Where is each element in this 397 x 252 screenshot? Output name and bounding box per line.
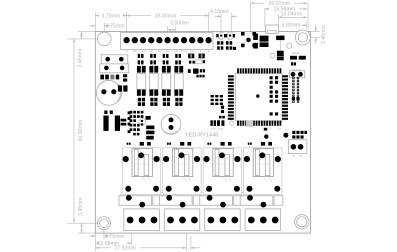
- svg-text:C6 C7: C6 C7: [266, 129, 271, 131]
- relay K1 side pins: [123, 156, 129, 162]
- svg-text:3.75mm: 3.75mm: [106, 24, 125, 30]
- MCU U1 pin1 via: [256, 94, 259, 97]
- svg-text:VIN: VIN: [125, 51, 129, 53]
- capacitor C5 pads: [121, 119, 127, 122]
- transistor Q2 pads: [150, 98, 157, 106]
- dimension 26.07mm: [251, 2, 265, 4]
- extra dim arrow bottom: [191, 247, 200, 249]
- LED ACT outline: [227, 32, 234, 39]
- pin header J1 labels: [125, 50, 210, 53]
- transistor Q1 pads: [138, 98, 145, 106]
- electrolytic capacitor E1: [96, 80, 121, 105]
- regulator U2 tabs: [103, 116, 108, 131]
- resistor R2 pads: [110, 75, 114, 80]
- dimension 3.75mm (left edge to first pin): [95, 15, 99, 17]
- relay K4 pin1: [259, 152, 265, 158]
- MCU U1 top pins: [237, 68, 281, 73]
- transistor Q5 round outline: [139, 119, 146, 126]
- PCB board outline: [95, 32, 310, 234]
- diode D7 pads: [146, 126, 154, 130]
- relay K4 side pins: [244, 156, 250, 162]
- crystal Y1 pads: [241, 32, 256, 47]
- svg-text:C10: C10: [278, 129, 281, 131]
- DC jack J2 pads: [276, 36, 284, 41]
- LED pads and resistors: [216, 34, 236, 50]
- optocoupler U4 pads top: [149, 66, 158, 73]
- optocoupler U3 body: [137, 74, 146, 90]
- passive cluster grid A: [130, 111, 144, 118]
- relay K4 marks: [257, 164, 270, 165]
- optocoupler U5 pads top: [162, 66, 171, 73]
- capacitor C2 footprint: [100, 64, 129, 73]
- svg-text:3.75mm: 3.75mm: [101, 13, 120, 19]
- svg-text:3.82mm: 3.82mm: [282, 22, 301, 28]
- relay K4 coil body: [253, 149, 273, 177]
- dimension extension lines top-left: [94, 13, 96, 32]
- fuse F1 pads: [260, 36, 269, 42]
- dimension 15.54mm: [265, 8, 270, 10]
- varistor box 1: [119, 196, 152, 205]
- svg-text:3.45mm: 3.45mm: [78, 197, 84, 216]
- passive cluster grid B: [130, 119, 140, 135]
- optocoupler U5 pads bottom: [162, 90, 171, 96]
- MCU U1 left pins: [228, 75, 234, 120]
- serial connector outline: [289, 71, 304, 78]
- diode D8 pads: [146, 131, 154, 135]
- MCU U1 bottom pins: [237, 121, 281, 126]
- relay K1 bottom pins: [125, 186, 131, 192]
- svg-text:YED-RY1448: YED-RY1448: [185, 133, 218, 139]
- relay K2 marks: [176, 164, 189, 165]
- relay K4 outline: [244, 148, 282, 195]
- transistor Q3 pads: [163, 98, 170, 106]
- relay K1 top pads: [127, 142, 151, 146]
- relay K2 top pads: [167, 142, 191, 146]
- driver column 3: resistors: [163, 54, 169, 65]
- capacitor C1 footprint: [101, 55, 128, 64]
- dimension 3.45mm top-left (vertical): [78, 31, 95, 33]
- capacitor bank cluster: [211, 95, 223, 105]
- small outline box: [196, 60, 203, 64]
- via pad: [264, 128, 267, 131]
- varistor box 4: [240, 196, 273, 205]
- DC jack J2 barrel circles: [295, 30, 310, 45]
- relay K2 side pins: [163, 156, 169, 162]
- svg-text:10002: 10002: [218, 128, 223, 130]
- relay K1 coil body: [132, 149, 152, 177]
- terminal block TB3: [205, 209, 241, 231]
- driver column 1: resistors: [138, 54, 144, 65]
- optocoupler U4 pads bottom: [149, 90, 158, 96]
- svg-text:13.04mm: 13.04mm: [281, 12, 303, 18]
- pin header J1 outline: [121, 33, 213, 50]
- svg-text:VOUT: VOUT: [181, 51, 188, 53]
- diode D9 pads: [146, 136, 154, 140]
- diode D5 pads: [253, 33, 258, 40]
- resistor R11 pads: [217, 120, 220, 126]
- svg-text:3.75mm: 3.75mm: [105, 234, 124, 240]
- mounting hole top-left: [98, 32, 112, 46]
- MCU U1 exposed pad: [246, 120, 254, 127]
- dimension 27.92mm bottom: [95, 247, 98, 249]
- LED PWR outline: [218, 32, 225, 39]
- MCU U1 body outline: [235, 73, 282, 121]
- svg-text:COM: COM: [173, 51, 178, 53]
- GND connector outline: [288, 140, 307, 154]
- optocoupler U5 body: [162, 74, 171, 90]
- relay K3 outline: [203, 148, 241, 195]
- dimension 35.00mm (header span): [127, 15, 151, 17]
- optocoupler U4 body: [149, 74, 158, 90]
- dimension 3.75mm (edge to hole center): [89, 25, 95, 27]
- svg-text:PWR: PWR: [218, 39, 223, 41]
- capacitor C8 pads: [221, 106, 224, 109]
- resistor R12 pads: [291, 62, 293, 65]
- svg-text:4.15mm: 4.15mm: [210, 9, 229, 15]
- relay K2 outline: [163, 148, 201, 195]
- capacitor C9 pads: [219, 116, 222, 119]
- svg-text:3.45mm: 3.45mm: [321, 25, 327, 44]
- MCU U1 inner via grid: [270, 76, 279, 115]
- capacitor C4 pads: [118, 85, 122, 91]
- relay K3 marks: [216, 164, 229, 165]
- terminal block TB4: [245, 209, 281, 231]
- programming header 2x9: [292, 77, 300, 103]
- resistor R1 pads: [100, 75, 104, 80]
- relay K3 bottom pins: [206, 186, 212, 192]
- diode D6 pads: [146, 116, 151, 120]
- MCU U1 right pins: [282, 75, 288, 120]
- round pad: [264, 134, 268, 138]
- svg-text:3.50mm: 3.50mm: [170, 21, 189, 27]
- varistor box 3: [200, 196, 233, 205]
- svg-text:27.92mm: 27.92mm: [114, 246, 136, 252]
- mounting hole bottom-right: [295, 215, 309, 229]
- relay K1 pin1: [138, 152, 144, 158]
- relay K2 bottom pins: [166, 186, 172, 192]
- dimension 66.90mm left (vertical): [73, 39, 75, 223]
- terminal block TB1: [124, 209, 159, 231]
- resistor R10 pads: [210, 120, 212, 126]
- driver column 4: resistors: [175, 54, 181, 65]
- pin header J1 pins: [123, 37, 211, 43]
- relay K2 pin1: [179, 152, 185, 158]
- svg-text:66.90mm: 66.90mm: [78, 120, 84, 142]
- svg-text:Reload: Reload: [292, 53, 300, 55]
- via hole: [287, 43, 292, 48]
- electrolytic capacitor E2: [161, 114, 181, 134]
- dimension 12.68mm bottom: [95, 242, 98, 244]
- relay K3 pin1: [219, 152, 225, 158]
- capacitor C3 pads: [123, 74, 127, 77]
- reload button pads: [290, 56, 297, 60]
- transistor Q4 pads: [175, 98, 182, 106]
- crystal Y1 center via: [246, 38, 251, 43]
- optocoupler U3 pads bottom: [137, 90, 146, 96]
- optocoupler U6 pads top: [174, 66, 183, 73]
- svg-text:10002: 10002: [211, 128, 216, 130]
- optocoupler U3 pads top: [137, 66, 146, 73]
- mounting hole bottom-left: [98, 217, 111, 230]
- relay K2 coil body: [172, 149, 192, 177]
- top middle cluster pads: [188, 54, 205, 78]
- relay K4 top pads: [248, 142, 272, 146]
- relay K3 side pins: [203, 156, 209, 162]
- dimension extension lines bottom: [94, 233, 96, 251]
- relay K1 outline: [122, 148, 160, 195]
- relay K1 marks: [135, 164, 148, 165]
- optocoupler U6 pads bottom: [174, 90, 183, 96]
- dimension 3.45mm bottom-left (vertical): [67, 222, 97, 224]
- svg-text:GND: GND: [190, 51, 195, 53]
- connector CN1 body overhanging edge: [266, 25, 279, 33]
- via ring: [230, 121, 234, 125]
- svg-text:35.00mm: 35.00mm: [155, 13, 177, 19]
- varistor box 2: [159, 196, 192, 205]
- via column: [128, 111, 131, 133]
- svg-text:GND: GND: [132, 51, 137, 53]
- dimension 3.75mm bottom: [89, 235, 95, 237]
- svg-text:3.45mm: 3.45mm: [78, 49, 84, 68]
- regulator U2 small pads: [104, 111, 107, 115]
- optocoupler U6 body: [174, 74, 183, 90]
- relay K3 top pads: [207, 142, 231, 146]
- relay K3 coil body: [213, 149, 233, 177]
- driver column 2: resistors: [150, 54, 156, 65]
- relay K4 bottom pins: [247, 186, 253, 192]
- dimension 3.45mm right (vertical): [310, 31, 319, 33]
- terminal block TB2: [164, 209, 200, 231]
- via hole: [270, 53, 275, 58]
